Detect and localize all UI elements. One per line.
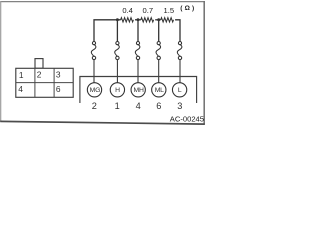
connector body xyxy=(16,68,73,97)
resistor R 1.5 ohm xyxy=(161,18,174,22)
svg-text:MH: MH xyxy=(134,87,144,94)
wire branch 4 from junction 3 xyxy=(158,20,160,42)
svg-text:3: 3 xyxy=(56,70,61,80)
thermal fuse coil branch 3 xyxy=(135,42,140,83)
svg-text:4: 4 xyxy=(18,84,23,94)
svg-text:1: 1 xyxy=(115,101,120,111)
svg-text:0.4: 0.4 xyxy=(122,6,133,15)
thermal fuse coil branch 1 xyxy=(91,42,96,83)
connector tab xyxy=(35,59,43,69)
svg-text:(Ω): (Ω) xyxy=(180,5,196,12)
svg-text:MG: MG xyxy=(90,87,100,94)
node dot junction 2 xyxy=(137,18,140,21)
wire branch 2 from junction 1 xyxy=(116,20,118,42)
terminal H xyxy=(110,83,124,97)
wire bus segment between R 0.4 and R 0.7 xyxy=(135,19,141,21)
terminal MH xyxy=(131,83,145,97)
svg-text:ML: ML xyxy=(155,87,164,94)
node dot junction 1 xyxy=(116,18,119,21)
svg-text:1: 1 xyxy=(19,70,24,80)
wire bus segment between R 0.7 and R 1.5 xyxy=(155,19,161,21)
svg-text:3: 3 xyxy=(177,101,182,111)
terminal ML xyxy=(152,83,166,97)
thermal fuse coil branch 2 xyxy=(115,42,120,83)
svg-text:2: 2 xyxy=(92,101,97,111)
node dot junction 3 xyxy=(157,18,160,21)
svg-text:2: 2 xyxy=(37,70,42,80)
svg-text:L: L xyxy=(178,87,182,94)
connector grid column divider 2 xyxy=(53,68,55,97)
svg-text:6: 6 xyxy=(56,84,61,94)
svg-text:6: 6 xyxy=(156,101,161,111)
svg-text:1.5: 1.5 xyxy=(164,6,175,15)
svg-text:AC-00245: AC-00245 xyxy=(170,114,204,123)
resistor R 0.4 ohm xyxy=(121,18,134,22)
wire branch 3 from junction 2 xyxy=(137,20,139,42)
wire top bus left corner down to branch 1 xyxy=(94,20,121,42)
thermal fuse coil branch 5 xyxy=(177,42,182,83)
connector grid row divider xyxy=(16,82,73,84)
terminal L xyxy=(172,83,186,97)
svg-text:0.7: 0.7 xyxy=(143,6,154,15)
resistor R 0.7 ohm xyxy=(141,18,154,22)
svg-text:4: 4 xyxy=(136,101,141,111)
svg-text:H: H xyxy=(115,87,120,94)
wire bus right corner down to branch 5 xyxy=(175,20,180,42)
thermal fuse coil branch 4 xyxy=(156,42,161,83)
terminal MG xyxy=(87,83,101,97)
connector grid column divider 1 xyxy=(34,68,36,97)
resistor unit box open bottom xyxy=(80,77,197,104)
